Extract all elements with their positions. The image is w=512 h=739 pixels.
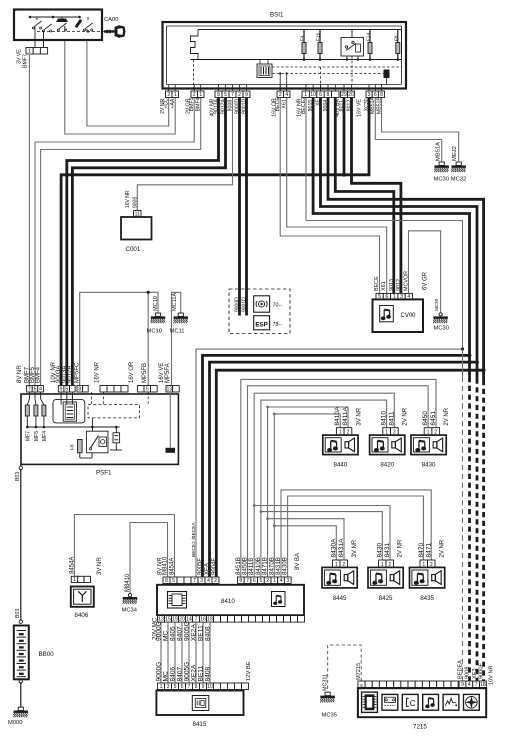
svg-text:X61: X61 — [381, 281, 387, 291]
svg-text:M8410: M8410 — [163, 556, 169, 575]
svg-text:MF7: MF7 — [25, 431, 31, 441]
svg-text:7: 7 — [28, 387, 31, 393]
svg-text:9012A: 9012A — [67, 366, 73, 383]
svg-text:F14: F14 — [366, 32, 372, 41]
svg-text:8408: 8408 — [205, 666, 212, 681]
svg-text:XEA: XEA — [205, 563, 211, 575]
svg-text:MB51A: MB51A — [435, 142, 441, 161]
svg-text:MP5FA: MP5FA — [165, 363, 171, 383]
svg-text:5: 5 — [34, 387, 37, 393]
svg-text:8454A: 8454A — [170, 558, 176, 575]
svg-text:MC311: MC311 — [323, 674, 329, 691]
svg-text:9008: 9008 — [465, 667, 471, 679]
svg-text:1: 1 — [160, 684, 163, 690]
svg-text:18: 18 — [480, 682, 486, 688]
svg-text:6V GR: 6V GR — [423, 271, 429, 290]
svg-text:8471: 8471 — [426, 542, 433, 557]
svg-text:MC10: MC10 — [153, 296, 159, 311]
svg-text:XE2A: XE2A — [191, 624, 198, 641]
svg-text:BSI1: BSI1 — [270, 12, 284, 19]
svg-text:7: 7 — [193, 578, 196, 584]
svg-text:BB00: BB00 — [39, 651, 55, 658]
svg-text:2V NR: 2V NR — [440, 539, 446, 557]
svg-text:12V BE: 12V BE — [246, 661, 252, 681]
svg-text:8411A: 8411A — [342, 406, 349, 425]
svg-text:4: 4 — [207, 578, 210, 584]
svg-text:3: 3 — [167, 684, 170, 690]
svg-text:BEDEA: BEDEA — [458, 660, 464, 679]
svg-text:BECE2 /BECEA: BECE2 /BECEA — [191, 522, 197, 557]
svg-text:9000D: 9000D — [235, 297, 241, 312]
svg-text:9: 9 — [60, 387, 63, 393]
svg-text:9012A: 9012A — [220, 98, 226, 114]
svg-text:8411: 8411 — [388, 411, 395, 426]
svg-text:8410: 8410 — [381, 411, 388, 426]
svg-text:16V VE: 16V VE — [159, 363, 165, 383]
svg-text:70--: 70-- — [273, 303, 283, 309]
svg-text:5: 5 — [260, 578, 263, 584]
svg-text:8450: 8450 — [422, 411, 429, 426]
svg-text:9005F: 9005F — [198, 558, 204, 575]
svg-text:16V NR: 16V NR — [125, 190, 131, 208]
svg-text:5: 5 — [174, 684, 177, 690]
svg-text:4: 4 — [39, 387, 42, 393]
svg-text:BE11: BE11 — [198, 625, 205, 641]
svg-text:10: 10 — [207, 684, 213, 690]
svg-text:8415: 8415 — [193, 721, 207, 728]
svg-text:B03: B03 — [15, 609, 21, 618]
svg-text:9015: 9015 — [308, 100, 314, 112]
svg-text:8431: 8431 — [384, 542, 391, 557]
svg-text:3V NR: 3V NR — [356, 407, 362, 425]
svg-text:9000D: 9000D — [234, 98, 240, 114]
svg-text:MP5FC: MP5FC — [75, 362, 81, 383]
svg-text:8410: 8410 — [221, 598, 235, 605]
svg-text:9000G: 9000G — [156, 662, 163, 682]
svg-text:M8410: M8410 — [125, 573, 131, 592]
svg-text:F15: F15 — [316, 32, 322, 41]
svg-text:MCVOR: MCVOR — [403, 271, 409, 291]
svg-text:MC30: MC30 — [434, 326, 449, 332]
svg-text:8: 8 — [360, 683, 363, 688]
svg-text:2: 2 — [266, 578, 269, 584]
svg-text:9013: 9013 — [389, 279, 395, 291]
svg-text:8420: 8420 — [380, 462, 394, 469]
svg-text:19: 19 — [172, 617, 178, 623]
svg-text:9008: 9008 — [132, 197, 138, 208]
svg-text:8V NR: 8V NR — [17, 365, 23, 383]
svg-text:3V NR: 3V NR — [97, 557, 103, 575]
svg-text:8: 8 — [78, 387, 81, 393]
svg-text:MB51B: MB51B — [376, 96, 382, 114]
svg-text:8431A: 8431A — [338, 538, 345, 558]
svg-text:2: 2 — [167, 92, 170, 98]
svg-text:8: 8 — [326, 92, 329, 98]
svg-text:MC35: MC35 — [322, 713, 337, 719]
svg-text:8406: 8406 — [75, 612, 89, 619]
svg-text:XE2A: XE2A — [191, 664, 198, 681]
svg-text:M000: M000 — [8, 720, 23, 726]
svg-text:F4: F4 — [300, 35, 306, 41]
svg-text:2: 2 — [193, 92, 196, 98]
svg-text:9: 9 — [245, 92, 248, 98]
svg-text:8: 8 — [165, 578, 168, 584]
svg-text:8405: 8405 — [170, 626, 177, 641]
svg-text:9005G: 9005G — [184, 662, 191, 682]
svg-text:MC: MC — [163, 671, 170, 681]
svg-text:PSF1: PSF1 — [96, 470, 112, 477]
svg-text:F8: F8 — [70, 444, 76, 450]
svg-text:13: 13 — [166, 387, 172, 393]
svg-text:8430A: 8430A — [330, 538, 337, 558]
svg-text:MF4: MF4 — [42, 431, 48, 441]
svg-text:4: 4 — [280, 578, 283, 584]
svg-text:7: 7 — [246, 578, 249, 584]
svg-text:BMF4: BMF4 — [36, 366, 42, 383]
svg-text:8: 8 — [239, 578, 242, 584]
svg-text:2: 2 — [214, 578, 217, 584]
svg-text:8406: 8406 — [170, 666, 177, 681]
svg-text:9001D: 9001D — [242, 297, 248, 312]
svg-text:2V NR: 2V NR — [402, 407, 408, 425]
svg-text:8: 8 — [195, 684, 198, 690]
svg-text:8407: 8407 — [177, 666, 184, 681]
svg-text:7: 7 — [195, 617, 198, 623]
svg-text:MP5FB: MP5FB — [142, 363, 148, 383]
svg-text:8430: 8430 — [376, 542, 383, 557]
svg-text:2V NR: 2V NR — [444, 407, 450, 425]
svg-text:8407: 8407 — [177, 626, 184, 641]
svg-text:BMF7: BMF7 — [22, 54, 28, 68]
svg-text:6: 6 — [253, 578, 256, 584]
svg-text:1: 1 — [73, 577, 76, 583]
svg-text:BECE2: BECE2 — [301, 97, 307, 114]
svg-text:1: 1 — [199, 92, 202, 98]
svg-text:+AA: +AA — [170, 98, 176, 108]
svg-text:8425: 8425 — [379, 595, 393, 602]
svg-text:9005G: 9005G — [184, 621, 191, 641]
svg-text:MC11A: MC11A — [172, 292, 178, 311]
svg-text:MEJ2: MEJ2 — [452, 146, 458, 161]
svg-text:9004F: 9004F — [211, 558, 217, 575]
svg-text:CA00: CA00 — [104, 17, 119, 23]
svg-text:16: 16 — [200, 617, 206, 623]
svg-text:18: 18 — [207, 617, 213, 623]
svg-text:C001: C001 — [126, 246, 141, 253]
svg-text:78--: 78-- — [273, 322, 283, 328]
svg-text:XC30: XC30 — [364, 98, 370, 111]
svg-text:20: 20 — [348, 92, 354, 98]
svg-text:1: 1 — [174, 92, 177, 98]
svg-text:F6: F6 — [393, 35, 399, 41]
svg-text:10: 10 — [310, 92, 316, 98]
svg-text:BMF4: BMF4 — [196, 97, 202, 111]
svg-text:9: 9 — [202, 684, 205, 690]
svg-text:8430B: 8430B — [282, 557, 289, 575]
svg-text:MC: MC — [163, 631, 170, 641]
svg-text:MC30: MC30 — [434, 177, 449, 183]
svg-text:8410A: 8410A — [334, 406, 341, 426]
svg-text:8408: 8408 — [205, 626, 212, 641]
svg-text:4: 4 — [285, 92, 288, 98]
svg-text:8454A: 8454A — [69, 557, 75, 574]
svg-text:9001D: 9001D — [241, 98, 247, 114]
svg-text:MF5: MF5 — [34, 431, 40, 441]
svg-text:MC11: MC11 — [170, 329, 185, 335]
svg-text:C: C — [410, 699, 416, 708]
svg-text:10V NR: 10V NR — [489, 665, 495, 685]
svg-text:7: 7 — [188, 684, 191, 690]
svg-text:9: 9 — [461, 682, 464, 688]
svg-text:9011: 9011 — [339, 100, 345, 111]
svg-text:9000G: 9000G — [156, 621, 163, 641]
svg-text:BE11: BE11 — [198, 666, 205, 682]
svg-text:7: 7 — [475, 682, 478, 688]
svg-text:8: 8 — [217, 92, 220, 98]
svg-text:MC30: MC30 — [434, 298, 439, 311]
svg-text:9013A: 9013A — [213, 98, 219, 114]
svg-text:BMF5: BMF5 — [189, 97, 195, 111]
svg-text:XE3: XE3 — [472, 668, 478, 679]
svg-text:1: 1 — [273, 578, 276, 584]
svg-text:MB51A: MB51A — [370, 96, 376, 114]
svg-text:9012: 9012 — [346, 100, 352, 112]
svg-text:8440: 8440 — [334, 462, 348, 469]
svg-text:3V VE: 3V VE — [16, 49, 22, 64]
svg-text:5: 5 — [224, 92, 227, 98]
svg-text:4: 4 — [468, 682, 471, 688]
svg-text:16V VE: 16V VE — [357, 99, 363, 117]
svg-text:BECE: BECE — [275, 97, 281, 112]
svg-text:MC32: MC32 — [451, 177, 466, 183]
svg-text:2: 2 — [238, 92, 241, 98]
svg-text:7215: 7215 — [413, 724, 427, 731]
svg-text:9000F: 9000F — [479, 663, 485, 679]
svg-text:MC34: MC34 — [122, 608, 138, 614]
svg-text:8470: 8470 — [418, 542, 425, 557]
svg-text:ESP: ESP — [255, 321, 267, 328]
svg-text:B03: B03 — [15, 472, 21, 481]
svg-text:8435: 8435 — [420, 595, 434, 602]
svg-text:6: 6 — [181, 684, 184, 690]
svg-text:16V OR: 16V OR — [129, 361, 135, 383]
svg-text:9008: 9008 — [227, 100, 233, 112]
svg-text:+CC: +CC — [164, 98, 170, 109]
svg-text:6: 6 — [319, 92, 322, 98]
svg-text:16V NR: 16V NR — [94, 361, 100, 383]
svg-text:XE: XE — [315, 98, 321, 105]
svg-text:MC10: MC10 — [147, 329, 162, 335]
svg-text:2V NR: 2V NR — [398, 539, 404, 557]
svg-text:X61: X61 — [282, 99, 288, 108]
svg-text:BECE: BECE — [374, 276, 380, 291]
svg-text:15: 15 — [165, 617, 171, 623]
svg-text:5: 5 — [65, 387, 68, 393]
svg-text:9012: 9012 — [396, 279, 402, 291]
svg-text:8V BA: 8V BA — [295, 553, 301, 570]
svg-text:3: 3 — [200, 578, 203, 584]
svg-text:8451: 8451 — [430, 411, 437, 426]
svg-text:5: 5 — [172, 578, 175, 584]
svg-text:CV00: CV00 — [401, 313, 417, 319]
svg-text:3: 3 — [286, 578, 289, 584]
svg-text:1: 1 — [28, 49, 31, 55]
svg-text:5: 5 — [146, 387, 149, 393]
svg-text:3V NR: 3V NR — [352, 539, 358, 557]
svg-text:7: 7 — [231, 92, 234, 98]
svg-text:29: 29 — [341, 92, 347, 98]
svg-text:9004: 9004 — [323, 100, 329, 112]
svg-text:8430: 8430 — [422, 462, 436, 469]
svg-text:M7215: M7215 — [356, 663, 362, 680]
svg-text:8445: 8445 — [333, 595, 347, 602]
